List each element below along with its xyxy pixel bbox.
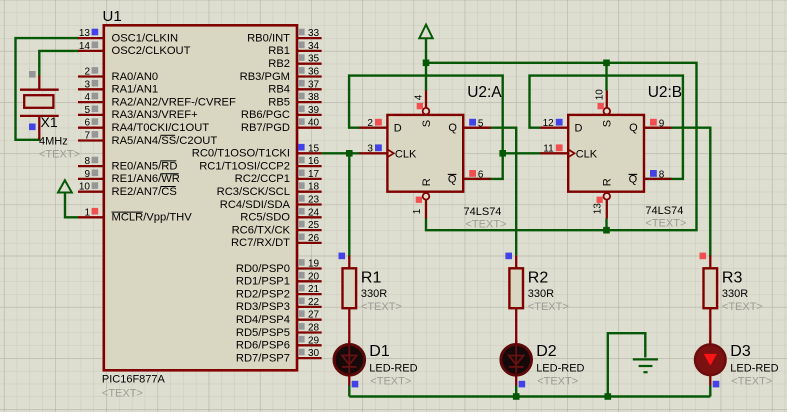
crystal X1 plates [20, 89, 59, 91]
svg-text:21: 21 [308, 284, 320, 295]
svg-text:D3: D3 [730, 343, 751, 360]
svg-text:D: D [394, 123, 402, 135]
svg-text:Q: Q [448, 174, 457, 186]
svg-text:<TEXT>: <TEXT> [102, 387, 143, 399]
U1 pin 2 (RA0/AN0) [78, 75, 104, 77]
U2:A R bubble [423, 193, 430, 200]
svg-text:RE1/AN6/WR: RE1/AN6/WR [112, 173, 180, 185]
U1 pin 16 (RC1/T1OSI/CCP2) [297, 165, 322, 167]
U1 pin 34 (RB1) [297, 50, 322, 52]
svg-text:29: 29 [308, 335, 320, 346]
svg-text:U2:A: U2:A [467, 84, 502, 101]
junction RC0/R1 [346, 150, 353, 157]
svg-text:RD1/PSP1: RD1/PSP1 [236, 276, 290, 288]
U1 pin 4 (RA2/AN2/VREF-/CVREF) [78, 101, 104, 103]
U1 pin 17 (RC2/CCP1) [297, 178, 322, 180]
crystal X1 body [24, 95, 53, 108]
U1 pin 14 (OSC2/CLKOUT) [78, 50, 104, 52]
svg-text:9: 9 [659, 119, 665, 130]
state square OSC2 net [29, 71, 36, 78]
svg-text:Q: Q [448, 122, 457, 134]
svg-text:RE0/AN5/RD: RE0/AN5/RD [112, 160, 178, 172]
svg-text:36: 36 [308, 67, 320, 78]
svg-text:4: 4 [414, 94, 425, 100]
svg-text:MCLR/Vpp/THV: MCLR/Vpp/THV [112, 212, 193, 224]
svg-text:330R: 330R [528, 288, 554, 300]
U2:A R stub [425, 200, 427, 219]
svg-text:34: 34 [308, 41, 320, 52]
svg-text:S: S [421, 120, 433, 127]
svg-text:19: 19 [308, 259, 320, 270]
svg-text:RD0/PSP0: RD0/PSP0 [236, 263, 290, 275]
U1 pin 39 (RB6/PGC) [297, 114, 322, 116]
svg-text:74LS74: 74LS74 [464, 206, 502, 218]
svg-text:RC1/T1OSI/CCP2: RC1/T1OSI/CCP2 [199, 160, 290, 172]
power symbol (VCC arrow) [419, 25, 432, 39]
crystal X1 stubs [38, 76, 40, 89]
wire: R1 column drop [348, 153, 350, 259]
svg-text:<TEXT>: <TEXT> [731, 376, 772, 388]
svg-text:3: 3 [367, 144, 373, 155]
ground symbol [633, 358, 658, 360]
svg-text:<TEXT>: <TEXT> [370, 376, 411, 388]
svg-text:26: 26 [308, 233, 320, 244]
svg-text:35: 35 [308, 54, 320, 65]
svg-text:RD7/PSP7: RD7/PSP7 [236, 352, 290, 364]
U1 pin 5 (RA3/AN3/VREF+) [78, 114, 104, 116]
U2:B R stub [606, 200, 608, 219]
junction U2:A Qbar feedback / U2:B CLK [499, 150, 506, 157]
U1 pin 38 (RB5) [297, 101, 322, 103]
U2:A S stub [425, 91, 427, 108]
resistor R2 bottom stub [515, 308, 517, 345]
svg-text:RC5/SDO: RC5/SDO [240, 212, 290, 224]
U2:B S stub [606, 91, 608, 108]
U1 pin 33 (RB0/INT) [297, 37, 322, 39]
U1 pin 37 (RB4) [297, 88, 322, 90]
resistor R2 body [509, 268, 523, 308]
svg-text:<TEXT>: <TEXT> [645, 218, 686, 230]
svg-text:RB2: RB2 [268, 58, 290, 70]
U1 pin 22 (RD3/PSP3) [297, 306, 322, 308]
resistor R3 top stub [709, 255, 711, 268]
svg-text:10: 10 [594, 89, 605, 101]
svg-text:RC6/TX/CK: RC6/TX/CK [232, 224, 291, 236]
svg-text:OSC1/CLKIN: OSC1/CLKIN [112, 32, 179, 44]
state square D2 net [519, 381, 526, 388]
svg-text:<TEXT>: <TEXT> [361, 301, 402, 313]
svg-text:<TEXT>: <TEXT> [528, 301, 569, 313]
svg-text:RD6/PSP6: RD6/PSP6 [236, 340, 290, 352]
svg-text:LED-RED: LED-RED [730, 363, 778, 375]
svg-text:7: 7 [84, 131, 90, 142]
svg-text:6: 6 [478, 170, 484, 181]
wire: VCC to U2:B S [605, 63, 607, 91]
resistor R1 top stub [348, 255, 350, 268]
U1 pin 7 (RA5/AN4/SS/C2OUT) [78, 139, 104, 141]
svg-text:<TEXT>: <TEXT> [39, 148, 80, 160]
U1 pin 1 (MCLR/Vpp/THV) [78, 216, 104, 218]
svg-text:11: 11 [543, 144, 554, 155]
U1 pin 30 (RD7/PSP7) [297, 357, 322, 359]
svg-text:RA2/AN2/VREF-/CVREF: RA2/AN2/VREF-/CVREF [112, 96, 236, 108]
svg-text:4: 4 [84, 92, 90, 103]
U1 pin 40 (RB7/PGD) [297, 127, 322, 129]
svg-text:D2: D2 [536, 343, 557, 360]
svg-text:8: 8 [84, 156, 90, 167]
svg-text:RA5/AN4/SS/C2OUT: RA5/AN4/SS/C2OUT [112, 135, 218, 147]
LED D1 bottom stub [348, 373, 350, 385]
wire: U2:A feedback Qbar to D [349, 76, 503, 179]
U1 pin 6 (RA4/T0CKI/C1OUT) [78, 127, 104, 129]
svg-text:LED-RED: LED-RED [369, 363, 417, 375]
svg-text:RA1/AN1: RA1/AN1 [112, 84, 159, 96]
U2:B S bubble [604, 108, 611, 115]
svg-text:<TEXT>: <TEXT> [537, 376, 578, 388]
svg-text:24: 24 [308, 207, 320, 218]
svg-text:R1: R1 [361, 270, 382, 287]
svg-text:2: 2 [84, 67, 90, 78]
svg-text:R: R [421, 178, 433, 186]
junction rail/ground [605, 393, 612, 400]
svg-text:D: D [575, 123, 583, 135]
svg-text:23: 23 [308, 195, 320, 206]
svg-text:RC3/SCK/SCL: RC3/SCK/SCL [217, 186, 290, 198]
svg-text:74LS74: 74LS74 [645, 205, 683, 217]
wire: U2:B CLK from feedback [503, 152, 541, 154]
svg-text:2: 2 [367, 118, 373, 129]
wire: R-rail to U2:B R [605, 219, 607, 231]
wire: OSC2 net (pin14 to crystal top) [39, 51, 79, 76]
svg-text:330R: 330R [722, 288, 748, 300]
wire D1 to ground rail [348, 386, 350, 397]
svg-text:RC2/CCP1: RC2/CCP1 [235, 173, 290, 185]
resistor R3 bottom stub [709, 308, 711, 345]
state square R1 net [339, 253, 346, 260]
power symbol on MCLR net [58, 180, 72, 192]
svg-text:R: R [602, 178, 614, 186]
svg-text:RB5: RB5 [268, 96, 290, 108]
svg-text:RD3/PSP3: RD3/PSP3 [236, 301, 290, 313]
U1 pin 25 (RC6/TX/CK) [297, 229, 322, 231]
U1 pin 27 (RD4/PSP4) [297, 319, 322, 321]
resistor R1 bottom stub [348, 308, 350, 345]
svg-text:RD2/PSP2: RD2/PSP2 [236, 288, 290, 300]
svg-text:U1: U1 [103, 8, 122, 25]
svg-text:<TEXT>: <TEXT> [466, 219, 507, 231]
svg-text:25: 25 [308, 220, 320, 231]
wire: ground rail [349, 395, 710, 397]
wire: MCLR net (pin1 to power arrow) [65, 193, 78, 218]
U1 pin 23 (RC4/SDI/SDA) [297, 203, 322, 205]
resistor R1 body [343, 268, 357, 308]
svg-text:RE2/AN7/CS: RE2/AN7/CS [112, 186, 177, 198]
U1 pin 28 (RD5/PSP5) [297, 331, 322, 333]
svg-text:RA0/AN0: RA0/AN0 [112, 71, 159, 83]
U2:A pin 5 stub [463, 127, 491, 129]
svg-text:RA3/AN3/VREF+: RA3/AN3/VREF+ [112, 109, 198, 121]
state square D1 net [352, 381, 359, 388]
svg-text:14: 14 [79, 41, 91, 52]
svg-text:RB0/INT: RB0/INT [247, 32, 290, 44]
svg-text:RB6/PGC: RB6/PGC [241, 109, 290, 121]
wire: VCC rail [425, 38, 427, 91]
svg-text:18: 18 [308, 182, 320, 193]
svg-text:30: 30 [308, 348, 320, 359]
svg-text:15: 15 [308, 143, 320, 154]
microcontroller U1 body [104, 25, 297, 370]
LED D3 body [695, 345, 726, 376]
svg-text:22: 22 [308, 297, 320, 308]
svg-text:RD5/PSP5: RD5/PSP5 [236, 327, 290, 339]
svg-text:RC4/SDI/SDA: RC4/SDI/SDA [220, 199, 291, 211]
svg-text:CLK: CLK [395, 148, 417, 160]
wire: RC0 net pin15 to U2:A CLK and R1 [322, 152, 360, 154]
state square D3 net [713, 381, 720, 388]
svg-text:<TEXT>: <TEXT> [722, 301, 763, 313]
svg-text:40: 40 [308, 118, 320, 129]
svg-text:3: 3 [84, 79, 90, 90]
wire D3 to ground rail [709, 386, 711, 397]
svg-text:33: 33 [308, 28, 320, 39]
wire: U2:B Q to R3 column [644, 128, 710, 257]
U1 pin 3 (RA1/AN1) [78, 88, 104, 90]
svg-text:8: 8 [659, 170, 665, 181]
svg-text:R3: R3 [722, 270, 743, 287]
svg-text:RB7/PGD: RB7/PGD [241, 122, 290, 134]
svg-text:RB3/PGM: RB3/PGM [240, 71, 290, 83]
U1 pin 15 (RC0/T1OSO/T1CKI) [297, 152, 322, 154]
svg-text:OSC2/CLKOUT: OSC2/CLKOUT [112, 45, 191, 57]
U2:B pin 9 stub [644, 127, 672, 129]
U2:B CLK wedge [568, 149, 574, 157]
U2:A S bubble [423, 108, 430, 115]
U1 pin 10 (RE2/AN7/CS) [78, 191, 104, 193]
wire D2 to ground rail [515, 386, 517, 397]
state square OSC1 net [29, 124, 36, 131]
U1 pin 29 (RD6/PSP6) [297, 344, 322, 346]
svg-text:RD4/PSP4: RD4/PSP4 [236, 314, 290, 326]
LED D3 bottom stub [709, 373, 711, 385]
svg-text:CLK: CLK [576, 148, 598, 160]
svg-text:5: 5 [478, 119, 484, 130]
U2:B R bubble [604, 193, 611, 200]
U1 pin 20 (RD1/PSP1) [297, 280, 322, 282]
svg-text:9: 9 [84, 169, 90, 180]
state square R3 net [700, 253, 707, 260]
svg-text:28: 28 [308, 323, 320, 334]
LED D2 bottom stub [515, 373, 517, 385]
svg-text:330R: 330R [361, 288, 387, 300]
resistor R3 body [704, 268, 718, 308]
svg-text:D1: D1 [369, 343, 390, 360]
svg-text:U2:B: U2:B [648, 84, 682, 101]
svg-text:5: 5 [84, 105, 90, 116]
svg-text:S: S [602, 120, 614, 127]
svg-text:RB4: RB4 [268, 84, 290, 96]
svg-text:37: 37 [308, 79, 320, 90]
svg-text:RC7/RX/DT: RC7/RX/DT [231, 237, 290, 249]
U1 pin 13 (OSC1/CLKIN) [78, 37, 104, 39]
svg-text:1: 1 [412, 208, 423, 214]
svg-text:RB1: RB1 [268, 45, 290, 57]
wire: U2:A Q to R2 column [463, 128, 516, 256]
svg-text:13: 13 [79, 28, 91, 39]
svg-text:R2: R2 [528, 270, 549, 287]
svg-text:17: 17 [308, 169, 320, 180]
U2:A pin 6 stub [463, 178, 491, 180]
svg-text:16: 16 [308, 156, 320, 167]
LED D1 body [334, 345, 365, 376]
state square R2 net [505, 253, 512, 260]
svg-text:27: 27 [308, 310, 320, 321]
svg-text:10: 10 [79, 182, 91, 193]
U1 pin 21 (RD2/PSP2) [297, 293, 322, 295]
svg-text:PIC16F877A: PIC16F877A [102, 373, 166, 385]
svg-text:1: 1 [84, 207, 90, 218]
U1 pin 24 (RC5/SDO) [297, 216, 322, 218]
wire: ground branch [608, 333, 646, 396]
U1 pin 8 (RE0/AN5/RD) [78, 165, 104, 167]
U1 pin 36 (RB3/PGM) [297, 75, 322, 77]
D flip-flop U2:A body [387, 115, 463, 192]
svg-text:Q: Q [629, 174, 638, 186]
svg-text:38: 38 [308, 92, 320, 103]
svg-text:X1: X1 [41, 114, 58, 130]
svg-text:12: 12 [543, 118, 555, 129]
U2:B pin 8 stub [644, 178, 672, 180]
svg-text:39: 39 [308, 105, 320, 116]
svg-text:LED-RED: LED-RED [536, 363, 584, 375]
junction rail/D2 [513, 393, 520, 400]
U1 pin 26 (RC7/RX/DT) [297, 242, 322, 244]
U1 pin 9 (RE1/AN6/WR) [78, 178, 104, 180]
LED D2 top stub [515, 340, 517, 347]
U1 pin 19 (RD0/PSP0) [297, 267, 322, 269]
U2:A CLK wedge [387, 149, 393, 157]
LED D1 top stub [348, 340, 350, 347]
junction VCC/U2:B S [603, 60, 610, 67]
U1 pin 35 (RB2) [297, 63, 322, 65]
svg-text:Q: Q [629, 122, 638, 134]
U2:A pin 2 stub [359, 127, 387, 129]
U2:B pin 11 stub [540, 152, 568, 154]
junction VCC/U2:A S [423, 60, 430, 67]
LED D2 body [501, 345, 532, 376]
LED D3 top stub [709, 340, 711, 347]
U2:A pin 3 stub [359, 152, 387, 154]
svg-text:RC0/T1OSO/T1CKI: RC0/T1OSO/T1CKI [192, 148, 290, 160]
U1 pin 18 (RC3/SCK/SCL) [297, 191, 322, 193]
svg-text:4MHz: 4MHz [39, 136, 68, 148]
wire: U2:B feedback Qbar to D [530, 76, 683, 179]
svg-text:13: 13 [593, 203, 604, 215]
junction R-rail/U2:B R [603, 227, 610, 234]
svg-text:20: 20 [308, 271, 320, 282]
resistor R2 top stub [515, 255, 517, 268]
U2:B pin 12 stub [540, 127, 568, 129]
wire: OSC1 net (pin13 to crystal bottom) [16, 38, 80, 140]
D flip-flop U2:B body [568, 115, 644, 192]
svg-text:RA4/T0CKI/C1OUT: RA4/T0CKI/C1OUT [112, 122, 210, 134]
svg-text:6: 6 [84, 118, 90, 129]
